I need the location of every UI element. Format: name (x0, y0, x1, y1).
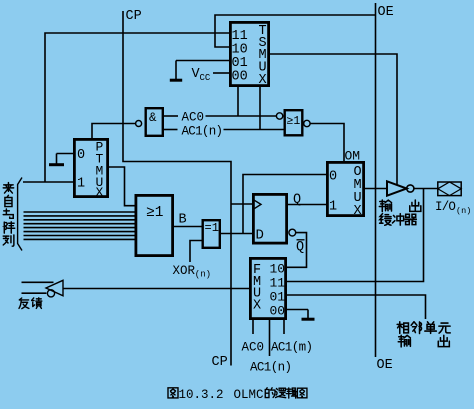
svg-text:10: 10 (270, 262, 286, 277)
svg-text:Q: Q (296, 240, 304, 255)
wire TSMUX select pin A down to AC0 line (237, 87, 239, 116)
svg-text:CP: CP (126, 9, 142, 24)
wire FMUX input 01 to adjacent cell (287, 295, 426, 319)
label 反馈 (feedback) (19, 298, 29, 309)
mux PTMUX box (74, 139, 107, 196)
bubble NAND output (136, 121, 142, 127)
label 输出 of adjacent cell (398, 335, 410, 347)
wire NAND output to PTMUX select (92, 124, 136, 139)
svg-text:OM: OM (345, 149, 361, 164)
svg-text:≥1: ≥1 (287, 115, 301, 128)
wire TSMUX input 10 loop to OE line (215, 15, 376, 47)
svg-text:AC0: AC0 (242, 341, 265, 355)
label 输出 of output buffer (379, 200, 391, 212)
label 相邻单元 (adjacent cell) (397, 322, 408, 334)
wire XOR output to D input (221, 233, 252, 235)
svg-text:I/O: I/O (435, 200, 455, 214)
wire TSMUX input 11 from AND-array line (45, 33, 229, 182)
wire TSMUX select pin B down to AC1(n) line (259, 87, 261, 130)
svg-text:(n): (n) (195, 270, 211, 280)
svg-text:=1: =1 (205, 221, 219, 235)
bubble feedback complement output (47, 290, 54, 297)
gate OR U3 box (136, 195, 173, 255)
mux OMUX box (327, 162, 363, 215)
caption 图10.3.2 OLMC的逻辑图 (168, 388, 178, 398)
wire FMUX output to feedback buffer (63, 288, 249, 290)
wire OMUX output to buffer (365, 188, 387, 190)
wire AC0 net (164, 115, 178, 117)
wire FMUX select pin AC1(m) (283, 320, 285, 334)
gate XOR U4 box (203, 220, 220, 248)
buffer feedback to AND array triangle (46, 280, 63, 296)
pin I/O pad symbol (438, 182, 461, 196)
wire XOR(n) input (190, 241, 202, 263)
svg-text:00: 00 (232, 70, 248, 85)
bubble buffer output (407, 185, 414, 192)
gate NOR U2 box (285, 110, 303, 135)
gate NAND U1 box (146, 108, 163, 136)
wire feedback true output (22, 281, 54, 283)
svg-text:(n): (n) (456, 206, 471, 216)
svg-text:X: X (259, 73, 267, 88)
svg-text:X: X (96, 185, 104, 200)
wire FMUX select pin AC0 (252, 320, 254, 334)
svg-text:OE: OE (378, 5, 394, 20)
ground at FMUX input 00 (287, 309, 308, 311)
svg-text:CP: CP (212, 355, 228, 370)
wire TSMUX output to buffer enable (270, 54, 397, 185)
svg-text:X: X (253, 299, 261, 314)
wire feedback branch from I/O line down to FMUX 11 (287, 189, 424, 282)
clock triangle of flip-flop (253, 199, 261, 209)
label 缓冲器 of output buffer (380, 214, 392, 226)
bubble Qbar output (289, 229, 296, 236)
wire product term to PTMUX input 1 (23, 181, 73, 183)
svg-text:00: 00 (270, 304, 286, 319)
svg-text:11: 11 (270, 276, 286, 291)
svg-text:1: 1 (77, 177, 85, 192)
wire Vcc to TSMUX input 00 (213, 72, 229, 74)
svg-text:OE: OE (377, 358, 393, 373)
svg-text:AC0: AC0 (182, 111, 205, 125)
svg-text:CC: CC (200, 73, 211, 83)
brace of AND-array bundle (18, 178, 22, 251)
wire Q output to OMUX input 1 (288, 204, 326, 206)
wire feedback complement output (22, 292, 47, 294)
svg-text:D: D (256, 228, 264, 244)
buffer tri-state output buffer triangle (387, 181, 407, 195)
svg-text:AC1(n): AC1(n) (250, 361, 291, 375)
wire AC1(n) net (164, 129, 178, 131)
svg-text:OLMC: OLMC (234, 388, 264, 402)
flip-flop D FF1 box (253, 194, 286, 243)
mux TSMUX box (230, 22, 268, 85)
wire AND-array product term lines x8 (24, 211, 135, 213)
wire branch XOR output up to OMUX input 0 (243, 175, 326, 234)
svg-text:X: X (354, 204, 362, 219)
ground at TSMUX input 01 (176, 60, 229, 62)
label 来自与阵列 (from AND array), vertical (3, 183, 13, 193)
mux FMUX box (250, 258, 285, 318)
wire CP vertical + horizontal jog + lower vertical (123, 11, 231, 366)
svg-text:AC1(m): AC1(m) (271, 341, 312, 355)
svg-text:B: B (179, 213, 187, 228)
svg-text:01: 01 (270, 290, 286, 305)
svg-text:≥1: ≥1 (146, 205, 163, 221)
svg-text:10.3.2: 10.3.2 (179, 388, 224, 402)
wire buffer output to I/O pin (414, 188, 438, 190)
svg-text:&: & (149, 111, 157, 125)
wire OE vertical line (375, 3, 377, 357)
svg-text:0: 0 (77, 148, 85, 163)
wire NOR output to OMUX select OM (310, 124, 344, 162)
wire CP branch to flip-flop clock (231, 203, 252, 205)
svg-text:XOR: XOR (173, 264, 196, 278)
wire Qbar to FMUX input 10 (287, 233, 307, 268)
wire PTMUX output to OR gate first input (109, 167, 135, 206)
wire FMUX select pin AC1(n) (269, 320, 271, 356)
svg-text:AC1(n): AC1(n) (182, 125, 223, 139)
bubble NOR output (304, 120, 310, 126)
svg-text:1: 1 (329, 200, 337, 215)
svg-text:0: 0 (329, 170, 337, 185)
ground at PTMUX input 0 (57, 153, 74, 155)
wire B from OR output to XOR (174, 226, 202, 228)
bubble NOR input (276, 113, 282, 119)
